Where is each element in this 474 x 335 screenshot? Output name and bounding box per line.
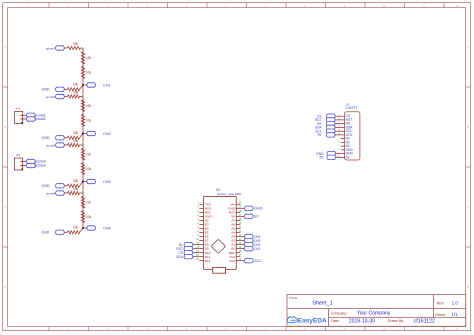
- svg-text:D6: D6: [205, 235, 209, 239]
- svg-text:D2: D2: [205, 219, 209, 223]
- svg-text:10k: 10k: [73, 139, 79, 143]
- svg-text:10k: 10k: [86, 152, 92, 156]
- svg-text:10k: 10k: [73, 82, 79, 86]
- svg-text:10k: 10k: [86, 104, 92, 108]
- svg-text:CH4: CH4: [103, 226, 111, 230]
- svg-text:ponta3: ponta3: [35, 160, 45, 164]
- svg-text:CH1: CH1: [254, 247, 261, 251]
- svg-text:10k: 10k: [73, 187, 79, 191]
- svg-text:D13: D13: [229, 259, 235, 263]
- svg-text:CH1: CH1: [103, 83, 111, 87]
- svg-text:D10: D10: [205, 251, 211, 255]
- svg-text:A5: A5: [231, 227, 235, 231]
- svg-text:RST: RST: [346, 118, 353, 122]
- svg-text:ponta4: ponta4: [35, 164, 45, 168]
- svg-text:RST: RST: [176, 247, 183, 251]
- svg-text:D: D: [4, 285, 6, 289]
- svg-text:Sheet_1: Sheet_1: [312, 301, 333, 307]
- svg-text:CH4: CH4: [254, 235, 261, 239]
- svg-text:10k: 10k: [86, 56, 92, 60]
- svg-text:A7: A7: [231, 219, 235, 223]
- svg-text:11: 11: [422, 4, 425, 8]
- svg-text:1.0: 1.0: [452, 301, 459, 306]
- svg-text:D: D: [467, 285, 469, 289]
- svg-text:10k: 10k: [86, 167, 92, 171]
- svg-text:A6: A6: [231, 223, 235, 227]
- svg-text:U3: U3: [216, 188, 220, 192]
- svg-text:TITLE:: TITLE:: [289, 296, 298, 300]
- svg-text:A3: A3: [231, 235, 235, 239]
- svg-text:C: C: [4, 205, 6, 209]
- svg-text:D7: D7: [205, 239, 209, 243]
- svg-text:GND: GND: [42, 88, 50, 92]
- svg-text:D8: D8: [205, 243, 209, 247]
- svg-text:REF: REF: [229, 251, 235, 255]
- svg-text:2.44TFT: 2.44TFT: [345, 106, 357, 110]
- svg-text:10: 10: [382, 4, 386, 8]
- svg-text:RXD: RXD: [205, 206, 212, 210]
- svg-text:10k: 10k: [73, 91, 79, 95]
- svg-text:cf161122: cf161122: [414, 318, 435, 324]
- svg-text:GND: GND: [42, 136, 50, 140]
- svg-text:10k: 10k: [86, 215, 92, 219]
- svg-text:SDA: SDA: [176, 255, 184, 259]
- svg-text:10k: 10k: [86, 71, 92, 75]
- svg-text:12: 12: [455, 4, 459, 8]
- svg-text:A2: A2: [231, 239, 235, 243]
- svg-text:RST: RST: [205, 211, 211, 215]
- svg-text:10k: 10k: [86, 119, 92, 123]
- svg-text:A0: A0: [231, 247, 235, 251]
- svg-text:SCL: SCL: [254, 259, 261, 263]
- svg-text:10k: 10k: [73, 179, 79, 183]
- svg-text:CH3: CH3: [254, 239, 261, 243]
- svg-text:D9: D9: [205, 247, 209, 251]
- svg-text:C: C: [467, 205, 469, 209]
- svg-text:ponta4: ponta4: [46, 191, 56, 195]
- svg-text:Your Company: Your Company: [357, 311, 391, 317]
- svg-text:Vin: Vin: [231, 202, 236, 206]
- svg-text:GND: GND: [205, 215, 213, 219]
- svg-text:Sheet:: Sheet:: [435, 313, 445, 317]
- svg-text:D3: D3: [205, 223, 209, 227]
- svg-text:B: B: [4, 125, 6, 129]
- svg-text:10k: 10k: [73, 225, 79, 229]
- svg-text:D12: D12: [205, 259, 211, 263]
- svg-text:Drawn By:: Drawn By:: [388, 319, 404, 323]
- svg-text:ponta1: ponta1: [46, 46, 56, 50]
- svg-text:GND: GND: [42, 184, 50, 188]
- svg-text:ponta3: ponta3: [46, 143, 56, 147]
- svg-text:RST: RST: [315, 118, 321, 122]
- svg-text:GND: GND: [42, 231, 50, 235]
- svg-text:CH2: CH2: [254, 243, 261, 247]
- svg-text:ponta2: ponta2: [46, 95, 56, 99]
- svg-text:SDA: SDA: [315, 126, 322, 130]
- svg-text:A: A: [467, 45, 469, 49]
- svg-text:CH2: CH2: [103, 132, 111, 136]
- svg-text:P2: P2: [16, 153, 20, 157]
- svg-text:10k: 10k: [86, 200, 92, 204]
- svg-text:5V: 5V: [254, 215, 259, 219]
- svg-text:D11: D11: [205, 255, 211, 259]
- svg-text:2019-10-30: 2019-10-30: [349, 318, 375, 324]
- svg-text:A4: A4: [231, 231, 235, 235]
- svg-text:10k: 10k: [73, 42, 79, 46]
- svg-text:3V3: 3V3: [229, 255, 235, 259]
- svg-text:Company:: Company:: [331, 311, 347, 315]
- svg-text:NC: NC: [346, 144, 351, 148]
- svg-text:CH3: CH3: [103, 180, 111, 184]
- svg-text:TXD: TXD: [205, 202, 212, 206]
- svg-text:A1: A1: [231, 243, 235, 247]
- svg-text:B: B: [467, 125, 469, 129]
- svg-text:1/1: 1/1: [452, 312, 459, 317]
- svg-text:arduino_nano KEI5: arduino_nano KEI5: [217, 192, 241, 196]
- svg-text:P1: P1: [16, 107, 20, 111]
- svg-text:Date:: Date:: [331, 319, 340, 323]
- svg-text:10: 10: [382, 327, 386, 331]
- svg-text:11: 11: [422, 327, 425, 331]
- svg-text:GND: GND: [254, 207, 263, 211]
- svg-text:REV:: REV:: [437, 301, 445, 305]
- svg-text:BL: BL: [179, 243, 183, 247]
- svg-text:EasyEDA: EasyEDA: [298, 318, 327, 325]
- svg-text:10k: 10k: [73, 131, 79, 135]
- svg-text:ponta2: ponta2: [35, 117, 45, 121]
- svg-text:D5: D5: [205, 231, 209, 235]
- svg-text:GND: GND: [228, 206, 236, 210]
- svg-text:D4: D4: [205, 227, 209, 231]
- svg-text:CS: CS: [178, 251, 183, 255]
- svg-text:RST: RST: [229, 211, 235, 215]
- svg-text:12: 12: [455, 327, 459, 331]
- svg-text:A: A: [4, 45, 6, 49]
- svg-text:5V: 5V: [320, 156, 325, 160]
- svg-text:SDA: SDA: [346, 125, 354, 129]
- svg-text:NC: NC: [346, 137, 351, 141]
